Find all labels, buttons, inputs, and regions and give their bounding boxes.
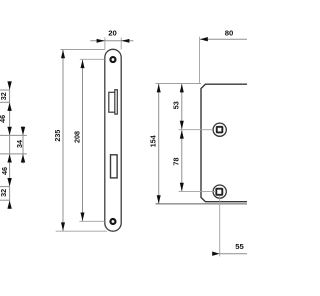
svg-text:80: 80 [225,28,234,37]
dim 55 line [220,253,248,255]
svg-text:46: 46 [0,115,7,123]
latch bolt bar [115,90,118,114]
chain arrow up at y102.3 [7,103,11,111]
svg-text:235: 235 [53,130,62,142]
latch cutout [109,92,115,112]
dim 20 extension lines [104,38,106,50]
follower hole bottom square [216,189,222,195]
follower1 ext line [179,129,213,131]
svg-text:55: 55 [235,242,244,251]
dim 208 arrow top [81,60,85,69]
deadbolt cutout [111,155,118,178]
dim 78 arrow bottom [180,183,184,192]
dim 78 arrow top [180,130,184,139]
dim 235 extension bottom [56,230,107,232]
faceplate outline [105,49,121,231]
dim 154 ext top [156,83,202,85]
dim 53 line [181,84,183,130]
dim 208 arrow bottom [81,213,85,222]
chain arrow down at y186.6 [7,178,11,186]
dim 20 line [90,40,133,42]
chain arrow up col2 y153.9 [21,154,25,162]
dim 53 arrow top [180,84,184,93]
follower hole bottom circle [213,185,226,198]
screw hole bottom [110,219,115,224]
svg-text:20: 20 [108,29,117,38]
left chain tick y90 [0,89,10,91]
left chain tick y200.2 [0,199,10,201]
dim 154 arrow top [157,84,161,93]
dim 208 extension top [80,58,105,60]
svg-text:32: 32 [0,92,8,100]
dim 20 arrow right [121,39,129,43]
dim 208 line [82,60,84,221]
chain arrow down at y90 [7,81,11,89]
dim 235 extension top [60,49,104,51]
dim 235 arrow top [61,50,65,59]
svg-text:53: 53 [171,101,180,109]
dim 20 arrow left [97,39,105,43]
lock body outline [201,84,248,202]
follower hole top circle [213,123,226,136]
dim 55 arrow [212,252,220,256]
chain arrow down col1 y135.4 [7,127,11,135]
chain arrow down col2 y135.4 [21,127,25,135]
chain arrow up col1 y153.9 [7,154,11,162]
dim 80 arrow [200,37,208,41]
svg-text:46: 46 [0,167,9,175]
dim 154 arrow bottom [157,195,161,204]
svg-text:32: 32 [0,189,8,197]
left chain tick y186.6 [0,186,10,188]
svg-text:208: 208 [72,131,81,143]
follower2 ext line [179,191,216,193]
dim 208 extension bottom [79,220,104,222]
dim 55 extension vertical [219,196,221,256]
dim 78 line [181,130,183,191]
left chain tick y135.4 [0,134,27,136]
dim 53 arrow bottom [180,121,184,130]
svg-text:78: 78 [171,158,180,166]
screw hole top [110,57,115,62]
follower hole top square [217,127,223,133]
dim 235 arrow bottom [61,222,65,231]
dim 154 line [158,84,160,204]
dim 80 extension [199,37,201,84]
left chain stem col1 [9,81,11,209]
chain arrow up at y200.2 [7,201,11,209]
dim 80 line [200,38,248,40]
left chain stem col2 [22,126,24,163]
svg-text:154: 154 [149,135,158,147]
dim 235 line [62,50,64,231]
left chain tick y102.3 [0,101,10,103]
left chain tick y153.9 [0,153,27,155]
dim 154 ext bottom [156,203,248,205]
svg-text:34: 34 [15,140,24,148]
